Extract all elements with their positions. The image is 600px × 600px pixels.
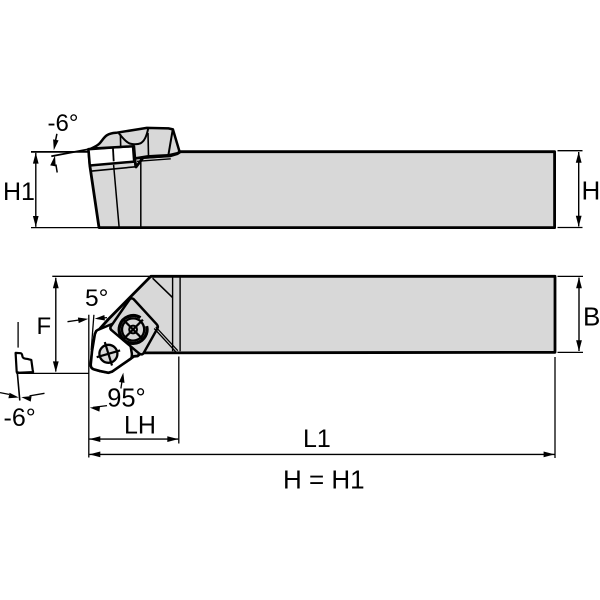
insert side view (white) — [89, 146, 135, 166]
-6deg arrows (front view) — [0, 393, 9, 395]
left vertical extension line (tip plane) — [88, 315, 90, 458]
profile centerline — [17, 322, 19, 348]
shim line under insert — [90, 167, 135, 171]
head inner edge line — [114, 165, 120, 227]
clamp front-left edge — [119, 134, 121, 147]
L1 dimension — [554, 357, 556, 458]
pocket end line 1 — [172, 278, 174, 352]
F dimension — [52, 275, 149, 277]
svg-text:H: H — [582, 176, 600, 206]
svg-text:H1: H1 — [3, 178, 35, 206]
toolholder plan view: shank + head — [91, 276, 555, 372]
clamp fold line — [168, 130, 172, 155]
tip profile figure (front view) — [16, 353, 33, 373]
clamp recess-right edge — [147, 133, 150, 156]
H dimension — [558, 150, 583, 152]
insert screw (plan) — [99, 345, 117, 363]
clamp boss arc — [119, 316, 147, 344]
svg-text:5°: 5° — [85, 285, 108, 312]
seat slot lines under clamp foot — [137, 156, 171, 158]
svg-text:-6°: -6° — [4, 404, 36, 432]
toolholder side view: shank — [89, 146, 555, 228]
insert plan view (white trigon) — [91, 322, 132, 373]
pocket end line 2 — [179, 278, 181, 352]
svg-text:L1: L1 — [303, 425, 331, 453]
seat slot double line — [156, 327, 178, 351]
pocket chamfer line — [153, 278, 173, 297]
-6deg reference slant line — [51, 149, 88, 156]
svg-text:-6°: -6° — [48, 110, 79, 137]
svg-text:LH: LH — [124, 412, 156, 440]
B dimension — [558, 275, 584, 277]
svg-text:H = H1: H = H1 — [283, 464, 365, 494]
LH dimension — [178, 357, 180, 444]
head/shank joint line — [140, 159, 142, 227]
svg-text:F: F — [37, 313, 52, 340]
5deg reference thin line — [91, 315, 94, 350]
clamp screw (plan) — [122, 318, 144, 340]
-6deg edge line — [17, 373, 20, 401]
clamp side view — [91, 128, 179, 158]
svg-text:95°: 95° — [107, 385, 146, 413]
H1 dimension — [31, 151, 88, 153]
clamp plan view — [110, 298, 158, 354]
insert facet divider — [112, 147, 115, 161]
clamp recess curve — [119, 129, 148, 145]
svg-text:B: B — [583, 302, 600, 332]
